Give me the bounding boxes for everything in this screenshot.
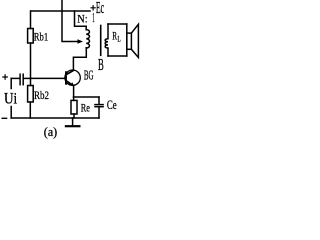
svg-text:Rb2: Rb2 [34, 88, 49, 102]
wire Re bottom lead [73, 114, 75, 118]
transistor Q1 circle [65, 70, 80, 85]
wire Ce bottom lead [98, 108, 100, 119]
svg-text:Ui: Ui [4, 90, 18, 107]
svg-text:1: 1 [92, 10, 95, 25]
transistor Q1 collector diagonal [66, 70, 73, 74]
wire cap to base junction [24, 77, 31, 79]
ground bar [66, 125, 80, 127]
wire Rb2 bottom lead [29, 102, 31, 118]
transistor Q1 base bar [65, 72, 67, 84]
plus sign at +Ec [91, 6, 95, 10]
plus sign at Ui [3, 75, 7, 79]
transformer T1 primary winding [86, 30, 89, 48]
capacitor Ce top plate [95, 104, 103, 106]
wire Rb1 bottom to Rb2 [30, 43, 32, 86]
capacitor Ce bottom plate [95, 106, 103, 108]
wire base horizontal (node: base junction) [31, 77, 66, 79]
coupling capacitor right plate [22, 74, 24, 85]
transformer T1 core [100, 26, 102, 56]
transformer T1 primary top lead [75, 11, 87, 30]
wire source left vertical upper [10, 78, 12, 88]
minus sign at Ui [2, 117, 6, 119]
wire source left vertical lower [10, 107, 12, 119]
resistor Rb1 [28, 29, 34, 44]
svg-text:B: B [98, 55, 104, 74]
resistor Re [71, 100, 77, 114]
wire emitter branch to Ce [74, 96, 99, 98]
wire collector up [73, 48, 86, 70]
wire Ce top lead [98, 97, 100, 104]
svg-text:Rb1: Rb1 [34, 29, 48, 43]
arrowhead [78, 39, 84, 43]
svg-text:Ce: Ce [107, 98, 117, 112]
speaker driver rectangle [127, 33, 132, 49]
transistor Q1 emitter diagonal [66, 81, 72, 85]
wire secondary right vertical [126, 24, 128, 56]
ground stub [72, 118, 74, 126]
svg-text:L: L [117, 34, 120, 44]
wire emitter down [73, 86, 75, 98]
svg-text:(a): (a) [44, 125, 57, 139]
svg-text:Re: Re [81, 103, 90, 115]
svg-text:BG: BG [84, 69, 94, 84]
speaker cone [131, 24, 138, 57]
wire source to cap [11, 77, 19, 79]
transistor Q1 emitter arrowhead [70, 82, 74, 86]
wire secondary bottom [108, 55, 127, 57]
wire Rb1 top lead [30, 11, 32, 29]
resistor Rb2 [28, 86, 34, 103]
coupling capacitor left plate [19, 74, 21, 85]
svg-text:N:: N: [77, 13, 87, 25]
wire top horizontal [31, 10, 90, 12]
svg-text:Ec: Ec [96, 0, 104, 17]
wire bottom horizontal [11, 117, 99, 119]
wire input vertical with signal arrow [62, 0, 78, 42]
transformer T1 secondary winding [105, 24, 108, 56]
wire emitter to Re [73, 97, 75, 100]
wire secondary top [108, 23, 127, 25]
